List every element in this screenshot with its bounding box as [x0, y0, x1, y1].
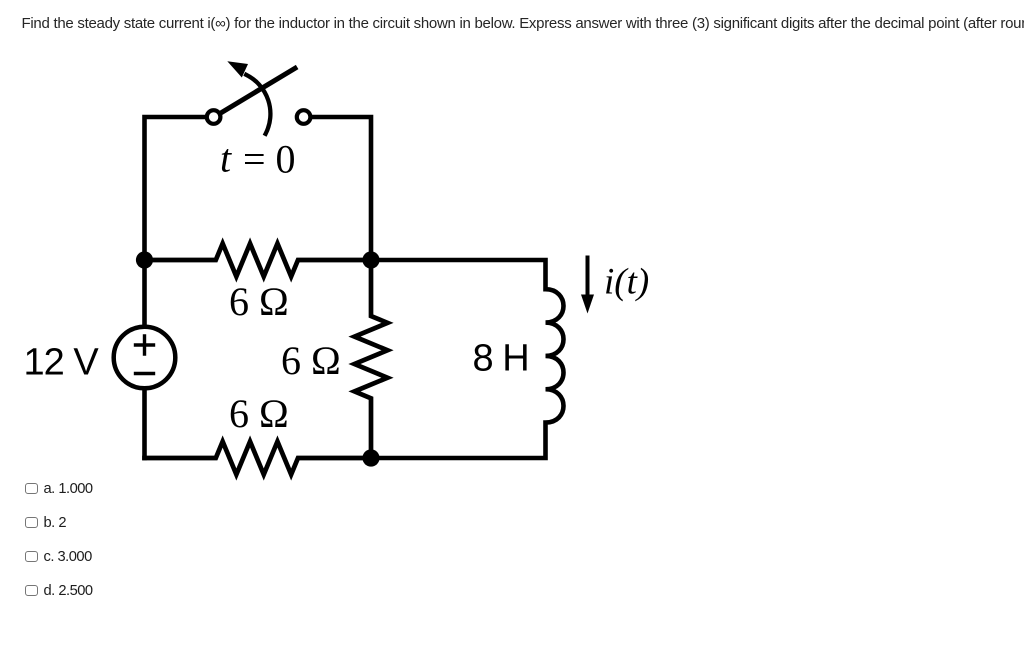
wire: voltage source bottom to bottom-left corner — [142, 389, 147, 459]
voltage source V1 minus sign — [136, 372, 154, 375]
option d checkbox — [25, 583, 93, 599]
wire: top-left rail from switch left terminal down to node A — [145, 117, 206, 260]
option c checkbox — [25, 549, 92, 565]
svg-text:= 0: = 0 — [243, 137, 296, 182]
resistor R2 6 ohm (bottom horizontal) — [145, 442, 372, 475]
switch SW1 left terminal circle — [207, 110, 221, 124]
resistor R1 6 ohm (top horizontal) — [145, 244, 372, 277]
wire: node A down to voltage source top — [142, 260, 147, 327]
voltage source V1 plus sign — [136, 336, 154, 354]
switch SW1 arrowhead — [227, 61, 248, 77]
node A junction dot — [136, 251, 153, 268]
question prompt text — [22, 15, 1024, 32]
resistor R3 6 ohm (middle vertical) — [355, 260, 388, 458]
svg-text:6 Ω: 6 Ω — [229, 279, 289, 324]
current arrow i(t) — [586, 258, 590, 299]
switch SW1 blade — [221, 68, 295, 112]
option b checkbox — [25, 515, 66, 531]
label t = 0 — [220, 136, 296, 182]
voltage source V1 12V circle — [114, 327, 176, 389]
svg-text:12 V: 12 V — [24, 342, 100, 384]
svg-text:6 Ω: 6 Ω — [229, 391, 289, 436]
svg-text:8 H: 8 H — [473, 338, 529, 380]
inductor L1 8H branch with top and bottom wires — [371, 260, 564, 458]
option a checkbox — [25, 481, 93, 497]
svg-text:t: t — [220, 136, 232, 181]
switch SW1 right terminal circle — [297, 110, 311, 124]
node B junction dot — [362, 251, 379, 268]
node C junction dot — [362, 449, 379, 466]
svg-text:i(t): i(t) — [604, 262, 649, 303]
wire: switch right terminal to top-right corner down to node B — [312, 117, 371, 260]
switch SW1 motion arc — [246, 75, 270, 134]
svg-text:6 Ω: 6 Ω — [281, 338, 341, 383]
